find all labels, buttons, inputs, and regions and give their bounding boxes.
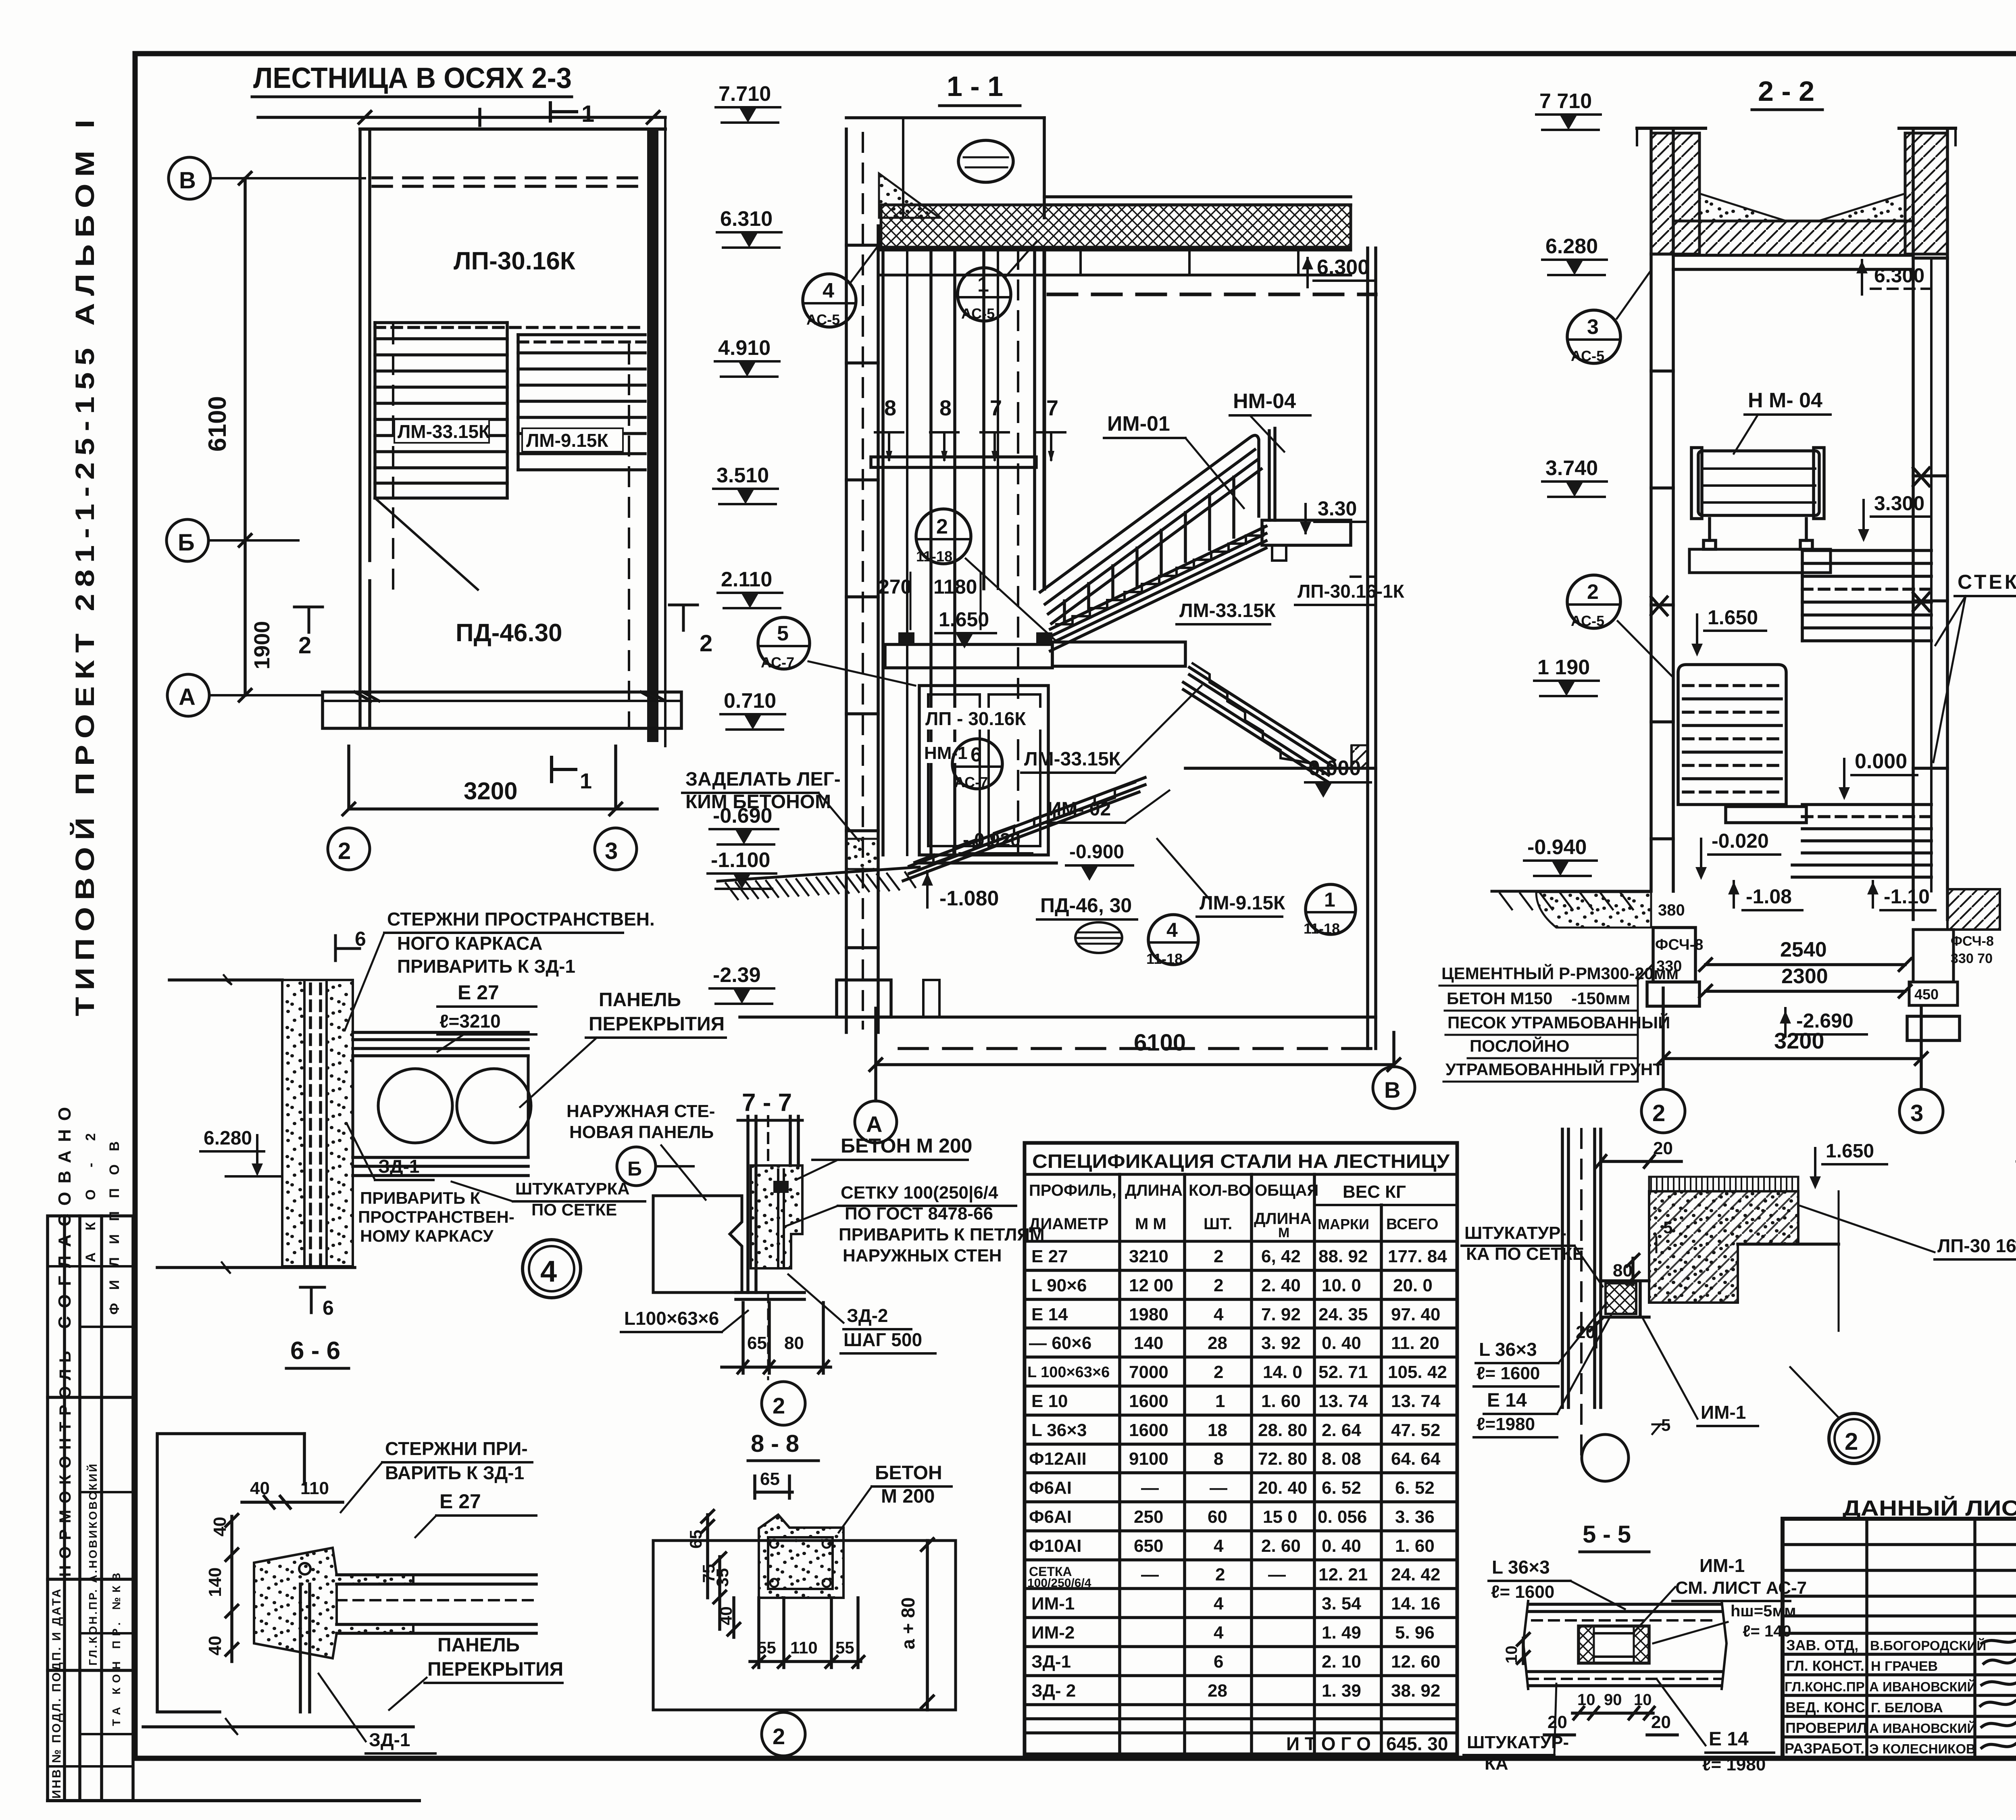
svg-text:ИМ-01: ИМ-01 (1107, 412, 1170, 436)
svg-text:110: 110 (790, 1638, 818, 1657)
svg-text:8 - 8: 8 - 8 (751, 1430, 799, 1457)
label ИМ-1 (node2) (1643, 1319, 1758, 1426)
svg-text:В.БОГОРОДСКИЙ: В.БОГОРОДСКИЙ (1870, 1638, 1986, 1653)
svg-text:140: 140 (1134, 1333, 1163, 1353)
bottom-left outer strip line (48, 1799, 419, 1802)
detail circle 2/АС-5 (1567, 575, 1673, 678)
6-6 dims 40 140 40 rotated (205, 1514, 238, 1662)
dim 3200 (2-2) (1657, 988, 1927, 1089)
svg-text:ЛМ-33.15К: ЛМ-33.15К (1179, 600, 1276, 621)
grid circle В (169, 157, 365, 199)
flight C treads (914, 782, 1135, 863)
stair flight ЛМ-9.15К treads (518, 335, 645, 470)
svg-text:6 - 6: 6 - 6 (290, 1337, 340, 1365)
label НМ-1 (923, 742, 975, 763)
svg-text:АС-5: АС-5 (1571, 613, 1604, 629)
flight A stringer lines (1050, 526, 1266, 651)
6-6 dims 40 110 (242, 1478, 343, 1508)
ceiling slab joint lines (881, 250, 1351, 275)
svg-text:1.650: 1.650 (1708, 606, 1758, 629)
svg-text:ЛМ-9.15К: ЛМ-9.15К (1200, 892, 1285, 914)
svg-text:380: 380 (1658, 901, 1685, 919)
wall dashed centerline (862, 133, 864, 1028)
svg-text:ФСЧ-8: ФСЧ-8 (1655, 936, 1703, 953)
plan top dimension line (258, 109, 665, 125)
svg-text:1: 1 (1324, 888, 1335, 911)
svg-text:4.910: 4.910 (718, 336, 771, 360)
detail circle 4/АС-5 (803, 242, 881, 328)
svg-text:3200: 3200 (464, 778, 517, 805)
1-1 left outer wall (846, 129, 878, 1032)
svg-text:ПРОВЕРИЛ: ПРОВЕРИЛ (1785, 1720, 1867, 1736)
-1.080 mark (922, 871, 999, 910)
svg-text:4: 4 (1214, 1536, 1224, 1556)
section marks 8 8 7 7 (875, 396, 903, 462)
node4 wall dashed lines (310, 984, 321, 1264)
svg-text:97. 40: 97. 40 (1391, 1305, 1440, 1324)
svg-text:7000: 7000 (1129, 1362, 1168, 1382)
plan left wall (360, 129, 370, 726)
svg-text:ЗД-1: ЗД-1 (369, 1729, 410, 1750)
svg-text:А ИВАНОВСКИЙ: А ИВАНОВСКИЙ (1869, 1720, 1976, 1736)
bottom dimension 3200 (343, 746, 657, 815)
right wall of section 1-1 (1368, 248, 1376, 1049)
svg-text:В: В (179, 167, 196, 194)
svg-text:6: 6 (323, 1297, 334, 1319)
7-7 centerline to circle 2 (767, 1293, 769, 1379)
node2 landing top line to right (1738, 1191, 1839, 1331)
left footing (1647, 928, 1699, 1006)
8-8 title (748, 1430, 818, 1461)
svg-text:2: 2 (1652, 1100, 1665, 1126)
svg-text:1: 1 (580, 769, 592, 793)
svg-text:ПД-46, 30: ПД-46, 30 (1040, 894, 1132, 917)
svg-text:ЛЕСТНИЦА В ОСЯХ 2-3: ЛЕСТНИЦА В ОСЯХ 2-3 (253, 62, 572, 94)
svg-text:И Т О Г О: И Т О Г О (1286, 1733, 1371, 1754)
section 1-1 title (939, 71, 1020, 106)
svg-text:11. 20: 11. 20 (1391, 1333, 1439, 1353)
landing 1.650 slab (1052, 642, 1185, 666)
8-8 bottom dims 55 110 55 (750, 1598, 864, 1668)
label Е27 (6-6) (415, 1490, 536, 1537)
empty axis circle (node2) (1582, 1434, 1629, 1481)
svg-text:3: 3 (1587, 315, 1599, 339)
basement floor lines (740, 1017, 1376, 1049)
svg-text:0.000: 0.000 (1855, 750, 1907, 773)
svg-text:-0.900: -0.900 (1069, 841, 1124, 863)
svg-text:КА ПО СЕТКЕ: КА ПО СЕТКЕ (1466, 1244, 1584, 1264)
infill block at wall base (846, 839, 878, 869)
grid circle 2 (8-8) (762, 1712, 805, 1756)
svg-text:60: 60 (1208, 1507, 1227, 1527)
grid circle А (167, 674, 323, 716)
svg-text:а + 80: а + 80 (898, 1597, 918, 1649)
svg-text:Е 27: Е 27 (458, 981, 499, 1004)
0.000 mark (1305, 757, 1371, 798)
svg-text:ПРИВАРИТЬ К: ПРИВАРИТЬ К (360, 1188, 481, 1207)
svg-text:1980: 1980 (1129, 1305, 1168, 1324)
svg-text:28. 80: 28. 80 (1258, 1420, 1307, 1440)
svg-text:6.280: 6.280 (1545, 235, 1598, 258)
svg-text:L 100×63×6: L 100×63×6 (1027, 1364, 1110, 1381)
label СТЕРЖНИ ПРИВАРИТЬ К ЗД-1 (6-6) (341, 1438, 532, 1512)
svg-text:ГЛ.КОН.ПР. А.НОВИКОВСКИЙ: ГЛ.КОН.ПР. А.НОВИКОВСКИЙ (86, 1464, 99, 1666)
6-6 slab lines right (337, 1575, 536, 1633)
svg-text:6: 6 (355, 928, 366, 950)
label ЛМ-9.15К (1157, 839, 1285, 917)
staff thin rows top (1783, 1545, 2016, 1616)
8-8 concrete cap (759, 1515, 843, 1598)
svg-text:ПЕСОК УТРАМБОВАННЫЙ: ПЕСОК УТРАМБОВАННЫЙ (1447, 1013, 1670, 1032)
node4 lower slab lines (353, 1157, 528, 1176)
svg-text:БЕТОН М150 -150мм: БЕТОН М150 -150мм (1447, 989, 1630, 1008)
ground line left of 2-2 (1492, 891, 1651, 909)
svg-text:14. 16: 14. 16 (1391, 1594, 1440, 1614)
svg-text:ДАННЫЙ ЛИСТ СМ. С ЛИСТОМ АС-7: ДАННЫЙ ЛИСТ СМ. С ЛИСТОМ АС-7 (1843, 1496, 2016, 1520)
foundation blocks (837, 980, 939, 1017)
svg-text:Ф10АI: Ф10АI (1029, 1536, 1082, 1556)
svg-text:100/250/6/4: 100/250/6/4 (1027, 1576, 1091, 1590)
svg-text:ПЕРЕКРЫТИЯ: ПЕРЕКРЫТИЯ (427, 1659, 563, 1680)
svg-text:ДИАМЕТР: ДИАМЕТР (1029, 1215, 1108, 1233)
5-5 title (1580, 1521, 1649, 1552)
wall panel joints (846, 245, 878, 948)
label НМ-04 (1230, 390, 1310, 452)
svg-text:6.310: 6.310 (720, 207, 773, 231)
svg-text:ШТ.: ШТ. (1204, 1215, 1232, 1233)
left parapet hatched (1637, 128, 1706, 254)
7-7 bottom angle (736, 1293, 804, 1299)
svg-text:2: 2 (298, 632, 311, 659)
svg-text:1. 39: 1. 39 (1322, 1681, 1361, 1701)
svg-text:ЛП - 30.16К: ЛП - 30.16К (925, 708, 1026, 729)
mid landing slab -0.020 (1726, 807, 1806, 823)
svg-text:МАРКИ: МАРКИ (1318, 1216, 1369, 1232)
svg-text:2.110: 2.110 (721, 568, 772, 591)
svg-text:1600: 1600 (1129, 1391, 1168, 1411)
svg-text:ПД-46.30: ПД-46.30 (456, 619, 562, 647)
svg-text:10: 10 (1577, 1691, 1595, 1709)
svg-text:СТЕРЖНИ ПРИ-: СТЕРЖНИ ПРИ- (385, 1438, 528, 1459)
shaft dashed line (1017, 250, 1019, 851)
dashed stair edge (lower storey) (628, 345, 630, 726)
elevation mark 6.310 (717, 207, 781, 248)
detail circle 5/АС-7 (758, 617, 915, 686)
svg-text:110: 110 (300, 1478, 329, 1498)
svg-text:7: 7 (990, 396, 1002, 420)
svg-text:3: 3 (1910, 1100, 1923, 1126)
dashed line at 3.30 right (1351, 575, 1376, 578)
svg-text:БЕТОН: БЕТОН (875, 1462, 942, 1484)
-0.020 mark (1695, 830, 1780, 880)
elevation mark 0.710 (721, 689, 785, 730)
ground floor line right (1185, 746, 1376, 768)
6-6 concrete key blob (254, 1548, 413, 1658)
svg-text:- 0.920: - 0.920 (963, 829, 1020, 850)
svg-text:3. 54: 3. 54 (1322, 1594, 1361, 1614)
-0.920 mark (960, 829, 1032, 853)
svg-text:НМ-04: НМ-04 (1233, 390, 1296, 413)
title block outer (1783, 1519, 2016, 1758)
svg-text:9100: 9100 (1129, 1449, 1168, 1469)
svg-text:ЛП-30 16К: ЛП-30 16К (1937, 1235, 2016, 1256)
svg-text:40: 40 (250, 1478, 270, 1498)
svg-text:ℓ= 1600: ℓ= 1600 (1491, 1582, 1554, 1602)
label ПРИВАРИТЬ К ПРОСТРАНСТВЕННОМУ КАРКАСУ (358, 1188, 514, 1245)
svg-text:20. 0: 20. 0 (1393, 1276, 1433, 1295)
svg-text:35: 35 (713, 1568, 732, 1587)
svg-text:—: — (1210, 1478, 1227, 1498)
bottom landing slab ПД (323, 692, 681, 728)
svg-text:2: 2 (700, 630, 712, 657)
svg-text:ВСЕГО: ВСЕГО (1386, 1216, 1438, 1233)
svg-text:Ф12АII: Ф12АII (1029, 1449, 1087, 1469)
svg-text:650: 650 (1134, 1536, 1163, 1556)
svg-text:270: 270 (878, 575, 912, 598)
svg-text:Е 14: Е 14 (1031, 1305, 1068, 1324)
svg-text:ПРИВАРИТЬ К ЗД-1: ПРИВАРИТЬ К ЗД-1 (397, 956, 575, 977)
elevation mark -2.39 (710, 963, 774, 1004)
svg-text:4: 4 (1214, 1305, 1224, 1324)
8-8 left dims rotated (686, 1510, 740, 1637)
svg-text:2. 40: 2. 40 (1261, 1276, 1301, 1295)
flight B treads zigzag (1193, 663, 1316, 764)
svg-text:2: 2 (1215, 1565, 1225, 1584)
6.280 mark (node4) (200, 1128, 282, 1176)
svg-text:L 36×3: L 36×3 (1479, 1339, 1537, 1360)
table header texts (1029, 1182, 1457, 1240)
svg-text:1. 60: 1. 60 (1395, 1536, 1435, 1556)
sloped fill at parapet (879, 173, 939, 218)
svg-text:5: 5 (1663, 1218, 1672, 1237)
label ЗД-1 (6-6 bottom) (319, 1674, 435, 1753)
svg-text:НАРУЖНАЯ СТЕ-: НАРУЖНАЯ СТЕ- (566, 1101, 715, 1121)
svg-text:12. 60: 12. 60 (1391, 1652, 1440, 1672)
svg-text:СТЕРЖНИ ПРОСТРАНСТВЕН.: СТЕРЖНИ ПРОСТРАНСТВЕН. (387, 909, 655, 930)
svg-text:8. 08: 8. 08 (1322, 1449, 1361, 1469)
labels ЛМ-33.15К / ЛП-30.16-1К upper (1177, 600, 1276, 624)
detail circle 2/11-18 (916, 509, 1056, 641)
label ИМ-1 СМ.ЛИСТ АС-7 (5-5) (1633, 1555, 1807, 1633)
svg-text:АС-5: АС-5 (1571, 348, 1604, 364)
svg-text:ПО ГОСТ 8478-66: ПО ГОСТ 8478-66 (845, 1204, 993, 1224)
svg-text:5 - 5: 5 - 5 (1583, 1521, 1631, 1548)
label ЛП-30.16К on door (923, 708, 1044, 730)
svg-text:L100×63×6: L100×63×6 (624, 1308, 719, 1329)
svg-text:6: 6 (1214, 1652, 1223, 1672)
svg-text:10: 10 (1634, 1691, 1652, 1709)
svg-text:3200: 3200 (1774, 1028, 1824, 1053)
label L36x3 с=1600 (5-5) (1489, 1557, 1625, 1609)
svg-text:2: 2 (1214, 1276, 1223, 1295)
node2 wall verticals (1562, 1129, 1601, 1456)
svg-text:1 - 1: 1 - 1 (947, 71, 1003, 102)
svg-text:64. 64: 64. 64 (1391, 1449, 1441, 1469)
slab end hatch marks (355, 692, 665, 701)
label L36x3 с=1600 (node2) (1474, 1303, 1607, 1386)
svg-text:6100: 6100 (1134, 1030, 1186, 1056)
svg-text:2. 60: 2. 60 (1261, 1536, 1301, 1556)
svg-text:1900: 1900 (250, 621, 274, 669)
СТЕКЛОПАКЕТЫ label (1933, 571, 2016, 762)
column section at B axis (1352, 745, 1368, 768)
svg-text:КИМ БЕТОНОМ: КИМ БЕТОНОМ (685, 791, 831, 813)
grid circle 3 (595, 828, 637, 870)
svg-text:0. 40: 0. 40 (1322, 1536, 1361, 1556)
elevation 3.740 (2-2) (1542, 457, 1607, 497)
node2 1.650 mark (1810, 1140, 1887, 1189)
svg-text:2. 64: 2. 64 (1322, 1420, 1361, 1440)
node4 bottom line (157, 1262, 355, 1274)
6.300 mark (2-2) (1856, 260, 1931, 294)
svg-text:Ф6АI: Ф6АI (1029, 1507, 1072, 1527)
svg-text:6.280: 6.280 (204, 1128, 252, 1149)
svg-text:ЗД-1: ЗД-1 (378, 1156, 420, 1177)
node2 dim 20 lower (1576, 1319, 1602, 1347)
svg-text:—: — (1141, 1565, 1159, 1584)
staff column verticals (1867, 1519, 2016, 1758)
svg-text:3.30: 3.30 (1318, 497, 1357, 520)
svg-text:СТЕКЛОПАКЕТЫ: СТЕКЛОПАКЕТЫ (1958, 571, 2016, 593)
svg-text:6. 52: 6. 52 (1395, 1478, 1435, 1498)
grid circle 3 (2-2) (1899, 1089, 1943, 1133)
svg-text:6.300: 6.300 (1317, 256, 1369, 279)
svg-text:Г. БЕЛОВА: Г. БЕЛОВА (1871, 1700, 1943, 1716)
landing slab 3.300 (2-2) (1689, 549, 1831, 573)
svg-text:11-18: 11-18 (916, 548, 952, 565)
svg-text:0.710: 0.710 (724, 689, 776, 713)
node2 screed band (vertical ticks) (1649, 1177, 1798, 1191)
section 2-2 title (1752, 75, 1822, 110)
5-5 dim 10 left (1503, 1633, 1529, 1664)
svg-text:12 00: 12 00 (1129, 1276, 1173, 1295)
svg-text:88. 92: 88. 92 (1318, 1247, 1368, 1266)
roof slope wedges (1699, 194, 1905, 221)
node2 diagonal hatch overlay (1649, 1191, 1798, 1303)
svg-text:8: 8 (1214, 1449, 1223, 1469)
svg-text:—: — (1141, 1478, 1159, 1498)
svg-text:ЗД- 2: ЗД- 2 (1031, 1681, 1076, 1701)
svg-text:4: 4 (823, 279, 834, 302)
-0.900 mark (1066, 841, 1133, 881)
svg-text:ТИПОВОЙ ПРОЕКТ 281-1-25-155 АЛ: ТИПОВОЙ ПРОЕКТ 281-1-25-155 АЛЬБОМ I (69, 113, 100, 1016)
label ИМ-02 (1044, 790, 1169, 823)
8-8 big slab rect (653, 1541, 956, 1710)
svg-text:2 - 2: 2 - 2 (1758, 75, 1814, 107)
svg-text:ℓ=3210: ℓ=3210 (439, 1011, 501, 1032)
section mark 1 (top) (550, 101, 594, 127)
5-5 slab strip (1523, 1601, 1727, 1689)
entrance porch line (919, 861, 1056, 865)
label Е27 с=3210 (node4) (437, 981, 536, 1052)
shaft wall vertical lines (883, 248, 1044, 855)
3.30 mark (1300, 497, 1367, 535)
elevation 6.280 (2-2) (1542, 235, 1607, 275)
flight A handrail (1040, 436, 1259, 622)
svg-text:РАЗРАБОТ.: РАЗРАБОТ. (1785, 1740, 1864, 1757)
svg-text:2. 10: 2. 10 (1322, 1652, 1361, 1672)
svg-text:1. 60: 1. 60 (1261, 1391, 1301, 1411)
-1.08 mark (1728, 881, 1802, 910)
flight C stringers (903, 778, 1145, 881)
svg-text:КА: КА (1485, 1754, 1508, 1774)
svg-text:140: 140 (205, 1568, 225, 1597)
svg-text:72. 80: 72. 80 (1258, 1449, 1307, 1469)
label ЛП-30 16К (node2) (1800, 1206, 2016, 1259)
svg-text:L 36×3: L 36×3 (1031, 1420, 1087, 1440)
section mark 2 (left) (294, 607, 323, 659)
-2.690 mark (1780, 1008, 1867, 1036)
foundation texts (1439, 963, 1679, 1082)
plan top wall (360, 127, 665, 131)
label ИМ-01 (1104, 412, 1244, 508)
2-2 right wall (1913, 129, 1947, 919)
flight label ЛМ-9.15К (522, 428, 623, 452)
svg-text:ПРОФИЛЬ,: ПРОФИЛЬ, (1029, 1182, 1116, 1199)
svg-text:ТА КОН ПР. №КВ: ТА КОН ПР. №КВ (110, 1573, 123, 1726)
svg-text:ℓ= 1600: ℓ= 1600 (1477, 1363, 1540, 1383)
svg-text:ПО СЕТКЕ: ПО СЕТКЕ (531, 1200, 617, 1219)
elevation mark 3.510 (713, 464, 778, 504)
svg-text:М 200: М 200 (881, 1486, 935, 1507)
vent blob (958, 140, 1013, 182)
5-5 weld label hш=5мм с=140 (1653, 1602, 1796, 1643)
svg-text:2: 2 (338, 838, 351, 864)
-1.10 mark (1867, 881, 1935, 910)
svg-text:14. 0: 14. 0 (1263, 1362, 1302, 1382)
node2 dim 5 marks (1652, 1218, 1672, 1434)
svg-text:УТРАМБОВАННЫЙ ГРУНТ: УТРАМБОВАННЫЙ ГРУНТ (1445, 1059, 1663, 1079)
svg-text:7: 7 (1046, 396, 1058, 420)
grid circle Б (7-7 axis) (617, 1147, 694, 1186)
6-6 anchor bar vertical (299, 1563, 310, 1712)
elevation mark 2.110 (718, 568, 782, 608)
5-5 dims 10 90 10 (1572, 1691, 1654, 1719)
svg-text:8: 8 (884, 396, 896, 420)
signatures (1981, 1637, 2016, 1748)
svg-text:1.650: 1.650 (939, 608, 989, 631)
node2 bracket assembly (1601, 1281, 1649, 1317)
svg-text:3: 3 (605, 838, 618, 864)
svg-text:177. 84: 177. 84 (1388, 1247, 1447, 1266)
svg-text:105. 42: 105. 42 (1388, 1362, 1447, 1382)
label Е14 с=1980 (node2) (1474, 1315, 1611, 1437)
svg-text:0. 056: 0. 056 (1318, 1507, 1367, 1527)
svg-text:ГЛ.КОНС.ПР: ГЛ.КОНС.ПР (1785, 1679, 1865, 1694)
svg-text:8: 8 (939, 396, 952, 420)
label НАРУЖНАЯ СТЕНОВАЯ ПАНЕЛЬ (566, 1101, 715, 1200)
svg-text:4: 4 (540, 1255, 557, 1288)
svg-text:ℓ= 1980: ℓ= 1980 (1702, 1755, 1766, 1774)
7-7 concrete blob (751, 1165, 802, 1268)
svg-text:ПОСЛОЙНО: ПОСЛОЙНО (1470, 1036, 1569, 1055)
svg-text:ФСЧ-8: ФСЧ-8 (1951, 934, 1994, 949)
svg-text:1600: 1600 (1129, 1420, 1168, 1440)
svg-text:ВАРИТЬ К ЗД-1: ВАРИТЬ К ЗД-1 (385, 1462, 524, 1483)
staff name texts (1869, 1638, 1986, 1756)
label ШТУКАТУРКА (5-5) (1464, 1684, 1569, 1774)
entrance doors (919, 686, 1048, 855)
top dashed panel edge (373, 178, 645, 186)
flight A newel post (1269, 428, 1275, 520)
svg-text:7.710: 7.710 (719, 82, 771, 106)
svg-text:В: В (1384, 1077, 1400, 1103)
svg-text:250: 250 (1134, 1507, 1163, 1527)
detail circle 6/АС-7 (952, 739, 1002, 790)
svg-text:645. 30: 645. 30 (1386, 1733, 1448, 1754)
upper tread lines block (frontal flight) (1802, 550, 1931, 641)
svg-text:6100: 6100 (204, 396, 231, 452)
